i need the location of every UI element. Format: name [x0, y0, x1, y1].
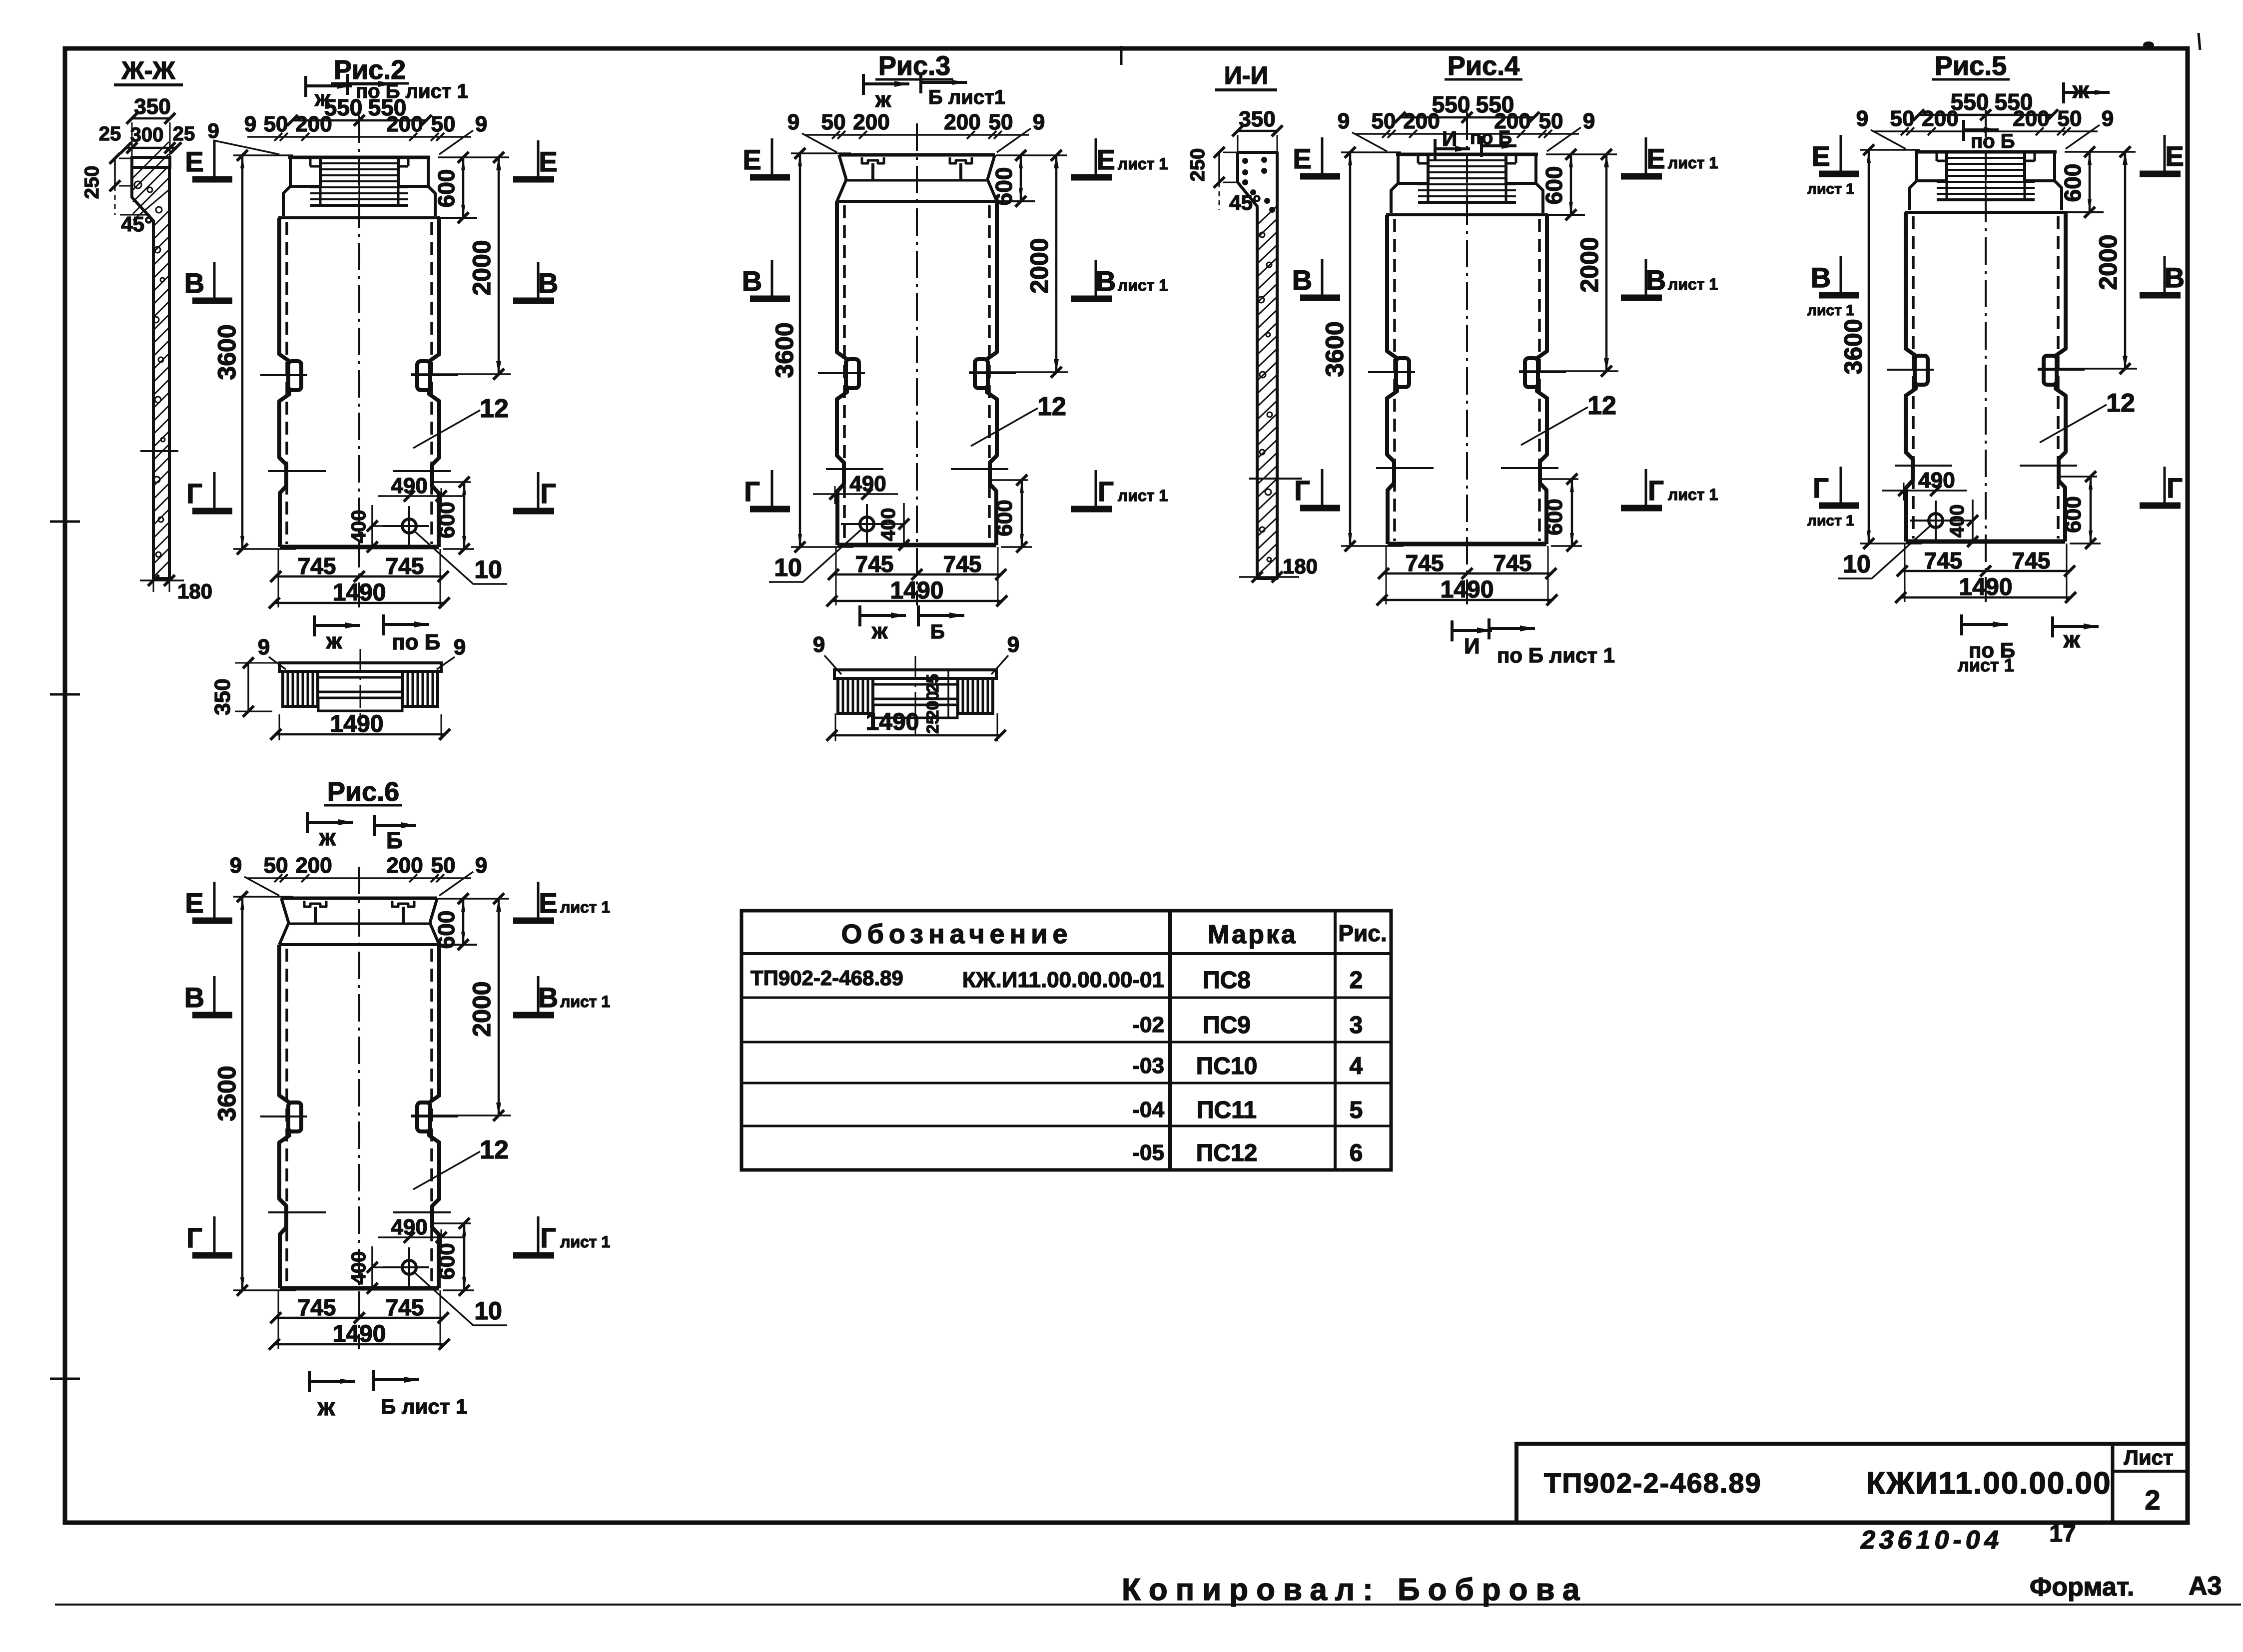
section marker В (left)	[213, 976, 216, 1012]
svg-text:350: 350	[210, 678, 235, 715]
section marker Е (right)	[1095, 138, 1097, 174]
svg-text:лист 1: лист 1	[1118, 155, 1168, 173]
svg-text:9: 9	[244, 112, 256, 136]
svg-text:И: И	[1464, 634, 1480, 658]
section marker Е (left)	[213, 882, 216, 918]
dimension 2000	[969, 371, 1068, 373]
section marker В (right)	[2164, 256, 2166, 292]
svg-text:2: 2	[1350, 967, 1363, 994]
scan artifact blob top right	[2143, 41, 2154, 48]
dimension 3600	[1860, 149, 1920, 151]
section marker В (left)	[771, 260, 773, 296]
section marker В (right)	[1645, 259, 1647, 295]
panel top cap with keyway grooves	[288, 156, 430, 159]
dimension row 9 50 200 / 200 50 9	[247, 877, 471, 879]
section marker В (left)	[213, 262, 216, 298]
svg-text:КЖ.И11.00.00.00-01: КЖ.И11.00.00.00-01	[962, 968, 1164, 992]
bottom view left keyed block	[838, 678, 873, 713]
dimension 2000	[411, 373, 511, 375]
svg-text:600: 600	[1542, 499, 1567, 535]
panel body outline	[1906, 212, 1916, 356]
svg-text:17: 17	[2049, 1521, 2076, 1547]
svg-text:50: 50	[821, 110, 846, 134]
svg-text:Рис.4: Рис.4	[1448, 51, 1519, 81]
centerline	[1985, 110, 1987, 602]
svg-text:9: 9	[1583, 109, 1595, 133]
svg-text:4: 4	[1350, 1053, 1363, 1080]
svg-text:лист 1: лист 1	[1668, 275, 1718, 293]
svg-text:Обозначение: Обозначение	[841, 919, 1072, 949]
hole 10	[402, 519, 416, 533]
svg-text:50: 50	[1372, 109, 1396, 133]
svg-text:Е: Е	[185, 887, 203, 919]
svg-text:А3: А3	[2189, 1572, 2222, 1601]
svg-text:лист 1: лист 1	[560, 993, 610, 1011]
svg-text:9: 9	[1033, 110, 1045, 134]
leader 9 diagonals	[802, 133, 837, 152]
svg-text:Г: Г	[186, 478, 202, 509]
svg-text:Рис.6: Рис.6	[327, 777, 399, 807]
svg-text:-04: -04	[1132, 1098, 1164, 1122]
svg-text:2000: 2000	[2094, 234, 2122, 290]
svg-text:600: 600	[2061, 496, 2086, 533]
section cut mark ж	[306, 812, 309, 833]
svg-text:45°: 45°	[1229, 191, 1261, 214]
svg-text:лист 1: лист 1	[1668, 154, 1718, 172]
svg-text:600: 600	[2060, 164, 2086, 202]
panel ПС9 Рис.3 elevation	[769, 51, 1068, 606]
svg-text:9: 9	[1007, 632, 1019, 657]
dimension 600 (top)	[1546, 153, 1617, 155]
dimension 400	[371, 505, 373, 548]
svg-text:350: 350	[1239, 107, 1275, 131]
hole 10	[1929, 514, 1943, 528]
dimension 600 (bottom)	[433, 481, 471, 483]
dimension 600 (top)	[438, 898, 509, 900]
leader 10	[769, 528, 863, 582]
svg-text:ТП902-2-468.89: ТП902-2-468.89	[1544, 1467, 1762, 1499]
svg-text:Е: Е	[743, 144, 761, 175]
svg-text:250: 250	[1187, 148, 1209, 182]
section marker Е (right)	[1645, 137, 1647, 173]
dimension row 9 50 200 / 200 50 9	[1355, 133, 1579, 135]
svg-text:9: 9	[813, 632, 825, 657]
svg-text:50: 50	[1539, 109, 1563, 133]
section cut mark	[2062, 82, 2065, 103]
section marker Г (right)	[2164, 467, 2166, 503]
dimension 600 (bottom)	[2060, 476, 2097, 478]
leader 12	[2040, 405, 2107, 443]
svg-text:ПС9: ПС9	[1203, 1012, 1251, 1039]
svg-text:Г: Г	[1098, 476, 1114, 507]
svg-text:В: В	[2165, 262, 2185, 293]
leader 9 diagonals	[1871, 130, 1906, 149]
svg-text:Марка: Марка	[1208, 920, 1298, 949]
dimension 600 (bottom)	[991, 479, 1028, 481]
svg-text:В: В	[538, 982, 558, 1013]
svg-text:400: 400	[348, 510, 370, 544]
svg-text:400: 400	[348, 1251, 370, 1285]
svg-text:3: 3	[1350, 1012, 1363, 1039]
svg-text:В: В	[1096, 265, 1116, 297]
svg-text:лист 1: лист 1	[1668, 486, 1718, 504]
dimension 400	[1972, 500, 1974, 543]
svg-text:В: В	[1292, 264, 1312, 296]
svg-text:Б лист 1: Б лист 1	[381, 1395, 467, 1418]
section cut mark	[382, 614, 385, 635]
svg-text:Копировал: Боброва: Копировал: Боброва	[1122, 1573, 1587, 1607]
И-И top block	[1238, 152, 1277, 578]
section cut mark Б	[373, 815, 376, 836]
svg-text:600: 600	[992, 500, 1017, 536]
svg-text:745: 745	[1924, 548, 1963, 573]
svg-text:ж: ж	[314, 86, 331, 111]
Ж-Ж top plate	[132, 157, 170, 167]
dimension 3600	[233, 154, 293, 156]
section marker В (left)	[1840, 256, 1842, 292]
Ж-Ж mid tick	[140, 450, 178, 452]
svg-text:2000: 2000	[468, 981, 496, 1037]
leader 9 diagonals	[1352, 132, 1387, 151]
hole 10	[402, 1260, 416, 1274]
svg-text:Е: Е	[1646, 143, 1665, 174]
section cut mark	[1434, 139, 1437, 160]
svg-text:9: 9	[207, 119, 219, 142]
svg-text:745: 745	[298, 553, 336, 579]
svg-text:180: 180	[177, 579, 212, 603]
svg-text:2000: 2000	[1575, 237, 1603, 292]
svg-text:Рис.: Рис.	[1338, 920, 1387, 946]
section marker Г (left)	[1321, 469, 1324, 505]
svg-text:9: 9	[475, 853, 487, 878]
bottom view top plate	[834, 670, 996, 678]
Ж-Ж wall hatching	[133, 142, 169, 178]
svg-text:ж: ж	[326, 629, 342, 653]
svg-text:Рис.3: Рис.3	[878, 51, 950, 81]
anchor hooks	[304, 901, 326, 907]
leader 9 diagonals	[213, 140, 279, 154]
svg-text:ж: ж	[871, 619, 888, 643]
hidden edge dashed lines	[843, 205, 846, 542]
section cut mark	[1962, 120, 1965, 141]
dimension 3600	[233, 896, 293, 898]
dimension 3600	[791, 152, 851, 154]
svg-text:Е: Е	[1096, 144, 1115, 175]
table row lines	[742, 952, 1391, 955]
svg-text:Г: Г	[186, 1222, 202, 1253]
svg-text:лист 1: лист 1	[1118, 487, 1168, 505]
stamp number 23610-04	[1858, 1526, 2005, 1555]
svg-text:200: 200	[386, 853, 423, 878]
section marker В (right)	[1095, 260, 1097, 296]
svg-text:Е: Е	[1811, 140, 1830, 172]
notch centerline ticks	[1368, 371, 1415, 373]
svg-text:2: 2	[2145, 1484, 2160, 1516]
section marker В (right)	[537, 262, 540, 298]
svg-text:9: 9	[454, 635, 466, 659]
svg-text:Формат.: Формат.	[2030, 1573, 2134, 1602]
svg-text:2000: 2000	[468, 240, 496, 295]
panel ПС8 Рис.2 elevation	[213, 55, 511, 608]
svg-text:350: 350	[134, 94, 170, 119]
section marker Г (right)	[537, 1216, 540, 1252]
dimension 400	[371, 1246, 373, 1289]
panel body outline	[279, 945, 289, 1102]
svg-text:25: 25	[923, 715, 942, 734]
leader 10	[413, 1271, 507, 1325]
svg-text:3600: 3600	[1321, 321, 1349, 377]
svg-text:12: 12	[1037, 392, 1066, 421]
svg-text:лист 1: лист 1	[1807, 302, 1854, 319]
section cut mark ж	[858, 605, 861, 626]
notch centerline ticks	[260, 1115, 307, 1117]
svg-text:10: 10	[474, 1297, 502, 1325]
section cut mark ж	[313, 615, 316, 636]
section marker Е (right)	[2164, 135, 2166, 171]
svg-text:550: 550	[1995, 89, 2033, 115]
svg-text:Б: Б	[386, 827, 403, 853]
svg-text:9: 9	[258, 635, 270, 659]
svg-text:745: 745	[1406, 550, 1444, 576]
svg-text:600: 600	[435, 1243, 459, 1279]
svg-text:550: 550	[1951, 89, 1989, 115]
svg-text:50: 50	[1890, 106, 1915, 131]
section cut mark	[1480, 136, 1483, 157]
section marker Г (right)	[1645, 469, 1647, 505]
panel ПС10 Рис.4 elevation	[1321, 51, 1618, 605]
title block	[1516, 1444, 2188, 1523]
svg-text:ПС12: ПС12	[1196, 1140, 1258, 1166]
svg-text:Ж-Ж: Ж-Ж	[121, 56, 175, 84]
svg-text:25: 25	[173, 123, 195, 145]
svg-text:1490: 1490	[866, 709, 919, 735]
svg-text:10: 10	[474, 555, 502, 583]
dimension 400	[903, 503, 905, 546]
section cut mark ж	[862, 74, 865, 95]
hidden edge dashed lines	[285, 222, 288, 544]
svg-text:В: В	[184, 982, 204, 1013]
svg-text:В: В	[1646, 264, 1666, 296]
svg-text:23610-04: 23610-04	[1858, 1526, 2005, 1555]
svg-text:И: И	[1442, 127, 1457, 150]
svg-text:745: 745	[855, 551, 894, 577]
svg-text:600: 600	[433, 169, 459, 208]
hidden edge dashed lines	[1393, 219, 1396, 541]
hidden edge dashed lines	[285, 949, 288, 1285]
dimension 600 (bottom)	[433, 1222, 471, 1224]
svg-text:12: 12	[2106, 389, 2135, 418]
svg-text:В: В	[184, 267, 204, 299]
svg-text:по Б: по Б	[1971, 130, 2015, 152]
svg-text:12: 12	[480, 394, 509, 423]
svg-text:В: В	[538, 267, 558, 299]
section cut mark	[1488, 618, 1491, 639]
hole 10	[860, 517, 874, 531]
svg-text:ТП902-2-468.89: ТП902-2-468.89	[750, 966, 903, 990]
dimension 2000	[1519, 370, 1618, 372]
svg-text:ж: ж	[317, 1394, 335, 1421]
svg-text:лист 1: лист 1	[1118, 276, 1168, 294]
svg-text:250: 250	[81, 166, 103, 199]
svg-text:550: 550	[1476, 91, 1514, 117]
svg-text:745: 745	[2012, 548, 2051, 573]
scan artifact stub near top right corner	[2199, 33, 2200, 50]
section cut mark	[308, 1371, 311, 1392]
svg-text:В: В	[1811, 262, 1831, 293]
bottom view right keyed block	[403, 671, 438, 706]
svg-text:Е: Е	[539, 887, 557, 919]
panel ПС11 Рис.5 elevation	[1838, 51, 2137, 603]
section cut mark Б	[917, 605, 920, 626]
dimension row 9 50 200 / 200 50 9	[1874, 130, 2098, 132]
svg-text:180: 180	[1283, 554, 1318, 578]
svg-text:50: 50	[431, 112, 456, 136]
svg-text:9: 9	[475, 112, 487, 136]
svg-text:600: 600	[991, 167, 1017, 206]
section marker Е (left)	[213, 140, 216, 176]
dimension 2000	[2038, 368, 2137, 370]
panel body outline	[279, 218, 289, 361]
svg-text:Б лист1: Б лист1	[928, 86, 1005, 108]
dimension 745+745	[1386, 546, 1387, 604]
svg-text:лист 1: лист 1	[560, 898, 610, 916]
centerline	[1466, 112, 1468, 604]
bottom view left keyed block	[283, 671, 318, 706]
section marker В (left)	[1321, 259, 1324, 295]
svg-text:по Б: по Б	[392, 630, 440, 654]
svg-text:Б: Б	[930, 621, 945, 643]
leader 9 diagonals	[244, 877, 279, 896]
section marker Г (left)	[213, 472, 216, 508]
dimension row 9 50 200 / 200 50 9	[805, 134, 1029, 136]
svg-text:3600: 3600	[213, 1066, 241, 1121]
svg-text:600: 600	[433, 911, 459, 949]
svg-text:50: 50	[2058, 106, 2082, 131]
dimension 745+745	[278, 549, 279, 607]
svg-text:745: 745	[1494, 550, 1532, 576]
svg-text:550: 550	[1432, 91, 1471, 117]
centerline	[358, 867, 360, 1349]
section cut mark	[346, 74, 349, 95]
notch centerline ticks	[260, 374, 307, 376]
parts table	[742, 911, 1391, 1170]
svg-text:600: 600	[1541, 166, 1567, 205]
dimension 600 (top)	[996, 154, 1067, 156]
svg-text:Лист: Лист	[2124, 1446, 2173, 1469]
svg-text:лист 1: лист 1	[1958, 655, 2014, 675]
svg-text:50: 50	[264, 112, 288, 136]
svg-text:50: 50	[264, 853, 288, 878]
bottom view centerline	[915, 656, 916, 735]
Ж-Ж wall section outline	[132, 167, 169, 578]
bottom view top plate	[279, 663, 441, 671]
panel top cap with keyway grooves	[1915, 150, 2057, 154]
dimension 745+745	[1904, 544, 1906, 602]
section marker Е (left)	[1840, 135, 1842, 171]
svg-text:-02: -02	[1132, 1013, 1164, 1037]
svg-text:12: 12	[480, 1135, 509, 1164]
svg-text:3600: 3600	[1839, 319, 1867, 374]
svg-text:200: 200	[944, 110, 980, 134]
leader 12	[413, 410, 480, 448]
svg-text:10: 10	[774, 553, 802, 581]
section marker Е (right)	[537, 882, 540, 918]
И-И rebar dots	[1242, 158, 1248, 164]
dimension 3600	[1341, 151, 1401, 153]
panel ПС12 Рис.6 elevation	[213, 777, 511, 1350]
И-И mid tick	[1249, 478, 1302, 480]
svg-text:Е: Е	[539, 146, 557, 177]
svg-text:9: 9	[230, 853, 242, 878]
section marker Е (left)	[771, 138, 773, 174]
dimension 600 (top)	[2065, 151, 2136, 153]
dimension row 9 50 200 / 200 50 9	[247, 136, 471, 138]
section marker Г (left)	[213, 1216, 216, 1252]
panel top cap (plain)	[281, 897, 437, 900]
svg-text:200: 200	[853, 110, 889, 134]
notch centerline ticks	[1887, 369, 1934, 371]
svg-text:3600: 3600	[213, 324, 241, 380]
table column lines	[1168, 911, 1172, 1170]
section marker Е (right)	[537, 140, 540, 176]
panel top cap (plain)	[839, 153, 995, 157]
dimension 600 (bottom)	[1541, 478, 1578, 480]
bottom view web lines	[318, 676, 403, 679]
dimension 745+745	[835, 547, 837, 605]
svg-text:Г: Г	[540, 1222, 556, 1253]
notch centerline ticks	[818, 372, 865, 374]
section marker Е (left)	[1321, 137, 1324, 173]
svg-text:Г: Г	[2167, 472, 2183, 504]
centerline	[916, 123, 918, 605]
dimension 745+745	[278, 1290, 279, 1349]
svg-text:ж: ж	[319, 824, 336, 850]
svg-text:25: 25	[923, 674, 942, 693]
bottom view web lines	[873, 683, 958, 686]
svg-text:КЖИ11.00.00.00: КЖИ11.00.00.00	[1866, 1466, 2112, 1501]
svg-text:25: 25	[99, 123, 121, 145]
svg-text:600: 600	[435, 502, 459, 538]
svg-text:по Б лист 1: по Б лист 1	[356, 80, 468, 102]
svg-text:9: 9	[1856, 106, 1868, 131]
svg-text:9: 9	[2102, 106, 2114, 131]
section cut mark	[919, 72, 922, 93]
bottom view lower plate	[873, 705, 957, 718]
svg-text:5: 5	[1350, 1097, 1363, 1123]
svg-text:45°: 45°	[121, 212, 153, 236]
section cut mark	[372, 1370, 375, 1391]
panel body outline	[837, 201, 847, 359]
svg-text:Е: Е	[185, 146, 203, 177]
svg-text:9: 9	[787, 110, 799, 134]
svg-text:Рис.5: Рис.5	[1935, 51, 2007, 81]
svg-text:-05: -05	[1132, 1140, 1164, 1165]
bottom rule line	[55, 1604, 2241, 1606]
svg-text:ПС8: ПС8	[1203, 967, 1251, 994]
svg-text:И-И: И-И	[1224, 61, 1269, 89]
bottom view lower plate	[318, 698, 402, 711]
section cut mark	[1960, 614, 1963, 635]
svg-text:50: 50	[989, 110, 1013, 134]
section marker Г (left)	[1840, 467, 1842, 503]
svg-text:Г: Г	[1813, 472, 1829, 504]
svg-text:лист 1: лист 1	[1807, 513, 1854, 529]
leader 12	[1521, 407, 1588, 445]
leader 10	[1838, 525, 1932, 578]
svg-text:В: В	[742, 265, 762, 297]
section marker Г (right)	[1095, 470, 1097, 506]
svg-text:ПС10: ПС10	[1196, 1053, 1258, 1080]
